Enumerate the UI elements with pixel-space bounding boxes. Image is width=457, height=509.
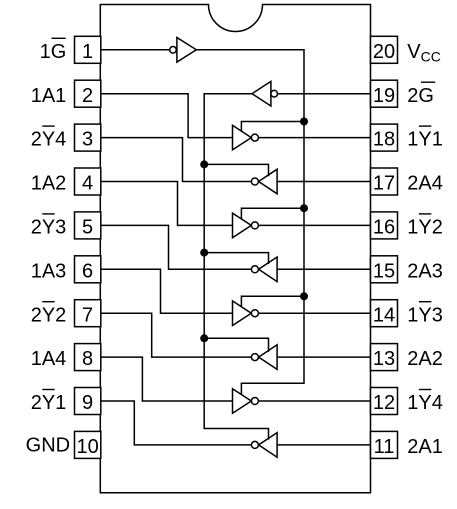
- net label 2Y4 (pin row y=138, left): [31, 126, 67, 151]
- pin 17 box+number (right): [371, 168, 398, 195]
- wire enable-1 tap to 1Y3: [241, 296, 304, 307]
- net label 1Y2 (pin row y=225, right): [407, 214, 443, 239]
- 3-state inverter 2A1 (left-pointing, output bubble): [251, 433, 277, 458]
- svg-text:1A2: 1A2: [31, 173, 67, 195]
- wire pin8 (1A4) to 1Y4 gate input: [101, 357, 233, 401]
- junction dot enable-1 / 1Y1 tap: [300, 118, 308, 126]
- net label 2Y3 (pin row y=225, left): [31, 214, 67, 239]
- svg-text:7: 7: [82, 304, 93, 326]
- 3-state inverter 1Y3 (right-pointing, output bubble): [233, 301, 259, 326]
- net label 2A2 (pin row y=357, right): [407, 348, 443, 370]
- svg-text:2: 2: [82, 85, 93, 107]
- svg-text:17: 17: [373, 173, 395, 195]
- svg-text:2Y3: 2Y3: [31, 217, 67, 239]
- 3-state inverter 1Y4 (right-pointing, output bubble): [233, 389, 259, 414]
- wire 1Y3 gate output to pin14: [258, 312, 370, 314]
- wire pin6 (1A3) to 1Y3 gate input: [101, 269, 233, 313]
- svg-text:1Y3: 1Y3: [407, 304, 443, 326]
- net label 2A3 (pin row y=269, right): [407, 260, 443, 282]
- pin 14 box+number (right): [371, 300, 398, 327]
- svg-text:16: 16: [373, 217, 395, 239]
- svg-text:1A1: 1A1: [31, 85, 67, 107]
- pin 19 box+number (right): [371, 80, 398, 107]
- wire 1Y1 gate output to pin18: [258, 137, 370, 139]
- svg-text:9: 9: [82, 392, 93, 414]
- pin 4 box+number (left): [75, 168, 101, 195]
- net label 1A1 (pin row y=94, left): [31, 85, 67, 107]
- wire 1Y4 gate output to pin12: [258, 400, 370, 402]
- net label 2A4 (pin row y=182, right): [407, 173, 443, 195]
- svg-text:1: 1: [82, 41, 93, 63]
- pin 15 box+number (right): [371, 256, 398, 283]
- pin 3 box+number (left): [75, 124, 101, 151]
- net label 1A4 (pin row y=357, left): [31, 348, 67, 370]
- net label 1Y1 (pin row y=138, right): [407, 126, 443, 151]
- 3-state inverter 2A2 (left-pointing, output bubble): [251, 345, 277, 370]
- inverter U1a (1G enable buffer, input bubble): [170, 38, 197, 63]
- net label 1A2 (pin row y=182, left): [31, 173, 67, 195]
- svg-text:18: 18: [373, 129, 395, 151]
- wire 2A4 gate output to pin3 (2Y4): [101, 138, 251, 182]
- net label 2A1 (pin row y=445, right): [407, 436, 443, 458]
- svg-text:11: 11: [374, 436, 395, 458]
- svg-text:4: 4: [82, 173, 93, 195]
- svg-text:GND: GND: [26, 434, 70, 456]
- net label 1Y4 (pin row y=401, right): [407, 390, 443, 415]
- 3-state inverter 1Y1 (right-pointing, output bubble): [233, 125, 259, 150]
- svg-text:2A3: 2A3: [407, 260, 443, 282]
- svg-text:5: 5: [82, 217, 93, 239]
- 3-state inverter 2A3 (left-pointing, output bubble): [251, 257, 277, 282]
- pin 16 box+number (right): [371, 212, 398, 239]
- wire pin13 (2A2) to 2A2 gate input: [277, 356, 371, 358]
- wire pin15 (2A3) to 2A3 gate input: [277, 268, 371, 270]
- svg-text:1Y2: 1Y2: [407, 217, 443, 239]
- wire/net enable-1: U1a output down right column to 1Y4 enable: [196, 50, 304, 395]
- 3-state inverter 2A4 (left-pointing, output bubble): [251, 169, 277, 194]
- svg-text:2Y2: 2Y2: [31, 304, 67, 326]
- wire enable-1 tap to 1Y1: [241, 122, 304, 132]
- svg-text:1Y1: 1Y1: [407, 129, 443, 151]
- pin 20 box+number (right): [371, 36, 398, 63]
- svg-text:2A2: 2A2: [407, 348, 443, 370]
- net label VCC (pin row y=50, right): [407, 41, 441, 65]
- svg-text:8: 8: [82, 348, 93, 370]
- pin 10 box+number (left): [75, 431, 101, 458]
- wire 2A2 gate output to pin7 (2Y2): [101, 313, 251, 357]
- net label 1A3 (pin row y=269, left): [31, 260, 67, 282]
- pin 12 box+number (right): [371, 388, 398, 415]
- wire enable-2 tap to 2A2: [204, 338, 268, 352]
- wire pin4 (1A2) to 1Y2 gate input: [101, 182, 233, 226]
- svg-text:1Y4: 1Y4: [407, 392, 443, 414]
- pin 2 box+number (left): [75, 80, 101, 107]
- svg-text:3: 3: [82, 129, 93, 151]
- svg-text:19: 19: [373, 85, 395, 107]
- junction dot enable-2 / 2A3 tap: [200, 249, 208, 257]
- wire 2A3 gate output to pin5 (2Y3): [101, 225, 251, 269]
- pin 13 box+number (right): [371, 344, 398, 371]
- net label 1Y3 (pin row y=313, right): [407, 302, 443, 327]
- wire enable-2 tap to 2A4: [204, 164, 268, 176]
- svg-text:20: 20: [373, 41, 395, 63]
- wire/net enable-2: U2a output down left column to 2A1 enable: [204, 94, 268, 440]
- IC body U1 (20-pin DIP outline with pin-1 index notch): [100, 5, 370, 493]
- net label 2G (pin row y=94, right): [407, 82, 435, 107]
- pin 1 box+number (left): [75, 36, 101, 63]
- svg-text:10: 10: [76, 436, 98, 458]
- wire pin17 (2A4) to 2A4 gate input: [277, 181, 371, 183]
- net label 1G (pin row y=50, left): [40, 38, 67, 63]
- svg-text:2G: 2G: [407, 85, 434, 107]
- net label GND (pin row y=445, left): [26, 434, 70, 456]
- svg-text:2A4: 2A4: [407, 173, 443, 195]
- junction dot enable-2 / 2A2 tap: [200, 334, 208, 342]
- pin 7 box+number (left): [75, 300, 101, 327]
- svg-text:13: 13: [373, 348, 395, 370]
- pin 5 box+number (left): [75, 212, 101, 239]
- pin 8 box+number (left): [75, 344, 101, 371]
- junction dot enable-2 / 2A4 tap: [200, 160, 208, 168]
- svg-text:1A3: 1A3: [31, 260, 67, 282]
- pin 18 box+number (right): [371, 124, 398, 151]
- svg-text:1G: 1G: [40, 41, 67, 63]
- 3-state inverter 1Y2 (right-pointing, output bubble): [233, 213, 259, 238]
- svg-text:2Y1: 2Y1: [31, 392, 67, 414]
- pin 6 box+number (left): [75, 256, 101, 283]
- pin 9 box+number (left): [75, 388, 101, 415]
- wire pin19 (2G) to U2a input bubble: [278, 93, 371, 95]
- net label 2Y2 (pin row y=313, left): [31, 302, 67, 327]
- svg-text:12: 12: [373, 392, 395, 414]
- wire enable-2 tap to 2A3: [204, 253, 268, 264]
- svg-text:15: 15: [373, 260, 395, 282]
- wire enable-1 tap to 1Y2: [241, 208, 304, 219]
- svg-text:2Y4: 2Y4: [31, 129, 67, 151]
- wire pin11 (2A1) to 2A1 gate input: [277, 444, 371, 446]
- svg-text:6: 6: [82, 260, 93, 282]
- svg-text:1A4: 1A4: [31, 348, 67, 370]
- wire pin1 (1G) to U1a input bubble: [101, 49, 170, 51]
- wire 2A1 gate output to pin9 (2Y1): [101, 401, 251, 445]
- net label 2Y1 (pin row y=401, left): [31, 390, 67, 415]
- svg-text:14: 14: [373, 304, 395, 326]
- junction dot enable-1 / 1Y3 tap: [300, 292, 308, 300]
- inverter U2a (2G enable buffer, input bubble): [252, 81, 278, 106]
- junction dot enable-1 / 1Y2 tap: [300, 204, 308, 212]
- wire pin2 (1A1) to 1Y1 gate input: [101, 94, 233, 138]
- svg-text:VCC: VCC: [407, 41, 441, 65]
- pin 11 box+number (right): [371, 431, 398, 458]
- wire 1Y2 gate output to pin16: [258, 224, 370, 226]
- svg-text:2A1: 2A1: [407, 436, 443, 458]
